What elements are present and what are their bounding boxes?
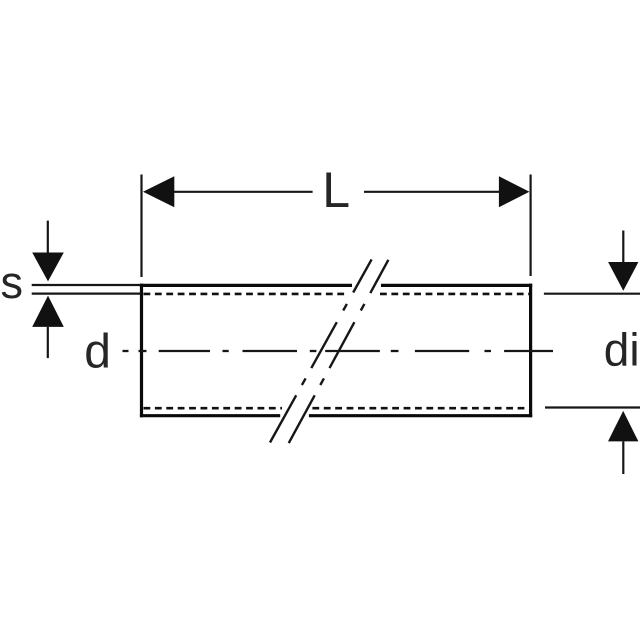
s lower reference line	[32, 292, 141, 294]
s up-arrowhead	[32, 296, 64, 327]
di up-arrowhead	[608, 411, 638, 442]
pipe bottom edge (left part)	[140, 414, 280, 417]
L dimension extension line right	[529, 175, 531, 277]
centerline (dash-dot)	[123, 350, 554, 352]
svg-text:s: s	[1, 257, 24, 308]
bottom inner dashed line (right part)	[312, 407, 529, 410]
L arrowhead right	[499, 176, 530, 207]
di lower reference line	[545, 406, 640, 408]
pipe top edge (right part)	[381, 284, 532, 287]
break line B (right diagonal)	[289, 260, 389, 443]
di down-arrow shaft	[622, 231, 624, 264]
svg-text:d: d	[84, 325, 111, 378]
bottom inner dashed line (left part)	[144, 407, 283, 410]
s upper reference line	[32, 284, 141, 286]
di up-arrow shaft	[622, 441, 624, 474]
di down-arrowhead	[608, 262, 638, 291]
inner wall dashed lines	[144, 294, 530, 408]
di upper reference line	[544, 293, 640, 295]
break line A (left diagonal)	[270, 259, 372, 442]
top inner dashed line (right part)	[380, 293, 529, 296]
svg-text:L: L	[322, 162, 350, 218]
L dimension line (left half)	[168, 191, 313, 193]
svg-text:di: di	[604, 324, 640, 376]
L dimension extension line left	[140, 175, 142, 278]
top inner dashed line (left part)	[144, 293, 349, 296]
pipe body outline	[140, 284, 532, 418]
pipe right edge	[529, 284, 532, 418]
pipe left edge	[140, 284, 143, 418]
s up-arrow shaft	[47, 327, 49, 358]
L dimension line (right half)	[364, 191, 505, 193]
s down-arrowhead	[32, 253, 64, 282]
pipe top edge (left part)	[140, 284, 352, 287]
L arrowhead left	[143, 176, 174, 207]
s down-arrow shaft	[47, 221, 49, 254]
pipe bottom edge (right part)	[309, 414, 532, 417]
